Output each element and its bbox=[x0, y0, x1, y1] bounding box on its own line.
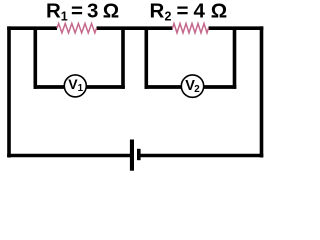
resistor R1 (3 ohm) zigzag bbox=[57, 24, 97, 33]
label R1 value (R1 = 3 ohm) bbox=[46, 0, 119, 24]
wire: V1 loop bottom horizontal bbox=[34, 85, 125, 89]
svg-text:1: 1 bbox=[61, 10, 68, 24]
svg-text:R: R bbox=[150, 0, 165, 23]
wire: V1 loop right vertical bbox=[121, 28, 125, 89]
wire: bottom conductor left of battery bbox=[7, 154, 130, 158]
svg-text:2: 2 bbox=[194, 84, 200, 95]
svg-text:4: 4 bbox=[194, 0, 206, 23]
voltmeter V1 bbox=[64, 75, 86, 97]
wire: right vertical conductor bbox=[260, 26, 264, 157]
battery B1 long plate bbox=[130, 140, 134, 171]
svg-text:3: 3 bbox=[87, 0, 98, 23]
svg-text:=: = bbox=[71, 0, 83, 23]
voltmeter V2 bbox=[181, 75, 203, 97]
wire: top conductor, left segment to R1 bbox=[7, 26, 57, 30]
wire: V2 loop right vertical bbox=[233, 28, 237, 89]
resistor R2 (4 ohm) zigzag bbox=[173, 24, 209, 33]
svg-text:1: 1 bbox=[78, 83, 84, 94]
wire: top conductor, segment between R1 and R2 bbox=[97, 26, 173, 30]
battery B1 short plate bbox=[137, 149, 141, 160]
wire: top conductor, right segment after R2 bbox=[209, 26, 264, 30]
wire: bottom conductor right of battery bbox=[141, 154, 264, 158]
svg-text:Ω: Ω bbox=[103, 0, 119, 23]
svg-text:=: = bbox=[177, 0, 189, 23]
label R2 value (R2 = 4 ohm) bbox=[150, 0, 228, 24]
wire: V2 loop bottom horizontal bbox=[145, 85, 237, 89]
svg-text:R: R bbox=[46, 0, 61, 23]
wire: V2 loop left vertical bbox=[145, 28, 149, 89]
wire: left vertical conductor bbox=[7, 26, 11, 157]
svg-text:Ω: Ω bbox=[211, 0, 227, 23]
wire: V1 loop left vertical bbox=[33, 28, 37, 89]
svg-text:2: 2 bbox=[165, 10, 172, 24]
